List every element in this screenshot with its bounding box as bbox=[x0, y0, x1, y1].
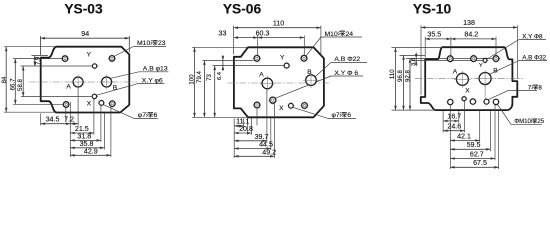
leader phi7 YS-03 bbox=[103, 105, 134, 119]
dimension 44.5 bbox=[234, 148, 271, 150]
bolt hole M10 top-2 YS-10 bbox=[471, 56, 477, 62]
dimension 84.2 bbox=[451, 38, 496, 40]
dimension 31.8 bbox=[70, 139, 101, 141]
svg-text:7: 7 bbox=[528, 84, 532, 91]
dimension 49.2 bbox=[234, 155, 274, 157]
svg-text:M10: M10 bbox=[325, 31, 338, 38]
svg-text:Y: Y bbox=[280, 55, 285, 62]
dimension 35.5 bbox=[425, 38, 451, 40]
svg-text:7.2: 7.2 bbox=[64, 115, 74, 123]
dimension 66.7 bbox=[14, 59, 16, 105]
centerline B down YS-10 bbox=[484, 85, 486, 99]
svg-text:X: X bbox=[279, 105, 284, 112]
svg-text:Y: Y bbox=[87, 52, 92, 59]
dimension 42.1 bbox=[450, 140, 479, 142]
svg-text:φ7: φ7 bbox=[332, 112, 340, 119]
drop bolt BL YS-06 bbox=[256, 108, 258, 125]
drop bolt BL YS-03 bbox=[65, 108, 67, 123]
bolt hole M10 bottom-1 YS-10 bbox=[448, 99, 453, 104]
drop bolt b4 YS-10 bbox=[494, 105, 496, 161]
svg-text:6: 6 bbox=[154, 112, 158, 119]
drop port X YS-06 bbox=[273, 104, 275, 158]
dimension 110 bbox=[234, 27, 321, 29]
drop port X YS-10 bbox=[464, 101, 466, 133]
dimension 92.8 bbox=[409, 58, 411, 110]
svg-text:33: 33 bbox=[219, 29, 227, 37]
svg-text:60.3: 60.3 bbox=[256, 29, 270, 37]
dimension 16.7 bbox=[443, 120, 459, 122]
leader XY YS-03 bbox=[96, 84, 138, 96]
dimension 96.8 bbox=[403, 55, 405, 110]
bolt hole M10 bottom-2 YS-10 bbox=[470, 99, 475, 104]
svg-text:A.B φ13: A.B φ13 bbox=[143, 66, 168, 73]
drop reference YS-03 bbox=[69, 102, 71, 157]
dimension 6.4 bbox=[222, 61, 224, 66]
dimension 39.7 bbox=[234, 140, 267, 142]
extension bottom edge YS-03 bbox=[4, 111, 56, 113]
port X YS-10 bbox=[462, 97, 466, 101]
drop left edge YS-06 bbox=[233, 118, 235, 158]
svg-text:A: A bbox=[453, 68, 458, 75]
extension bolt1 up YS-10 bbox=[450, 37, 452, 62]
svg-text:100: 100 bbox=[188, 74, 195, 85]
svg-text:42.9: 42.9 bbox=[84, 147, 98, 155]
extension bolt3 up YS-10 bbox=[495, 37, 497, 62]
svg-text:A.B Φ22: A.B Φ22 bbox=[334, 56, 360, 63]
bolt hole M10 top-left YS-03 bbox=[62, 56, 68, 62]
drop phi7 YS-03 bbox=[100, 106, 102, 143]
bolt hole M10 bottom-left YS-06 bbox=[254, 102, 260, 108]
extension right 138 bbox=[516, 25, 518, 79]
svg-text:62.7: 62.7 bbox=[470, 150, 484, 158]
dimension 59.5 bbox=[450, 148, 490, 150]
drop corner YS-06 bbox=[247, 118, 249, 135]
leader AB YS-06 bbox=[315, 62, 331, 77]
bolt hole M10 top-left YS-06 bbox=[254, 56, 260, 62]
drop 16.7 right YS-10 bbox=[458, 111, 460, 123]
svg-text:79.4: 79.4 bbox=[196, 70, 203, 82]
extension bolt row YS-10 bbox=[406, 57, 500, 59]
dimension 42.9 bbox=[70, 154, 111, 156]
hole phi7 YS-06 bbox=[289, 103, 294, 108]
svg-text:7.9: 7.9 bbox=[35, 57, 41, 65]
leader M10 YS-03 bbox=[113, 47, 134, 58]
drop 20.8 YS-06 bbox=[251, 118, 253, 135]
svg-text:92.8: 92.8 bbox=[404, 69, 411, 81]
dimension 3.8 bbox=[415, 58, 417, 60]
dimension 67.5 bbox=[450, 166, 498, 168]
leader M10 YS-10 bbox=[498, 105, 512, 125]
bolt hole M10 bottom-4 YS-10 bbox=[493, 99, 498, 104]
svg-text:35.5: 35.5 bbox=[427, 30, 441, 38]
svg-text:X: X bbox=[87, 100, 92, 107]
drop port X YS-03 bbox=[93, 99, 95, 135]
leader phi7 YS-06 bbox=[293, 107, 328, 118]
hole phi7 YS-03 bbox=[99, 101, 104, 106]
leader 7 depth 8 YS-10 bbox=[488, 91, 508, 100]
svg-text:YS-06: YS-06 bbox=[223, 2, 262, 17]
extension top edge YS-03 bbox=[4, 46, 56, 48]
port X YS-03 bbox=[92, 94, 96, 98]
drop plate corner YS-03 bbox=[40, 114, 42, 126]
extension 96.8 YS-10 bbox=[400, 54, 426, 56]
leader XY YS-06 bbox=[276, 76, 332, 98]
dimension 7.9 bbox=[34, 55, 36, 66]
svg-text:YS-03: YS-03 bbox=[64, 2, 103, 17]
port B YS-06 bbox=[306, 75, 317, 86]
drop 16.7 left YS-10 bbox=[442, 111, 444, 132]
svg-text:X: X bbox=[465, 88, 470, 95]
extension Y row YS-10 bbox=[412, 59, 488, 61]
plate outline YS-03 bbox=[41, 47, 130, 113]
svg-text:X.Y Φ8: X.Y Φ8 bbox=[522, 33, 543, 40]
svg-text:25: 25 bbox=[537, 119, 544, 125]
dimension 79.4 bbox=[203, 61, 205, 118]
svg-text:φ7: φ7 bbox=[138, 112, 146, 119]
dimension 73 bbox=[214, 66, 216, 118]
svg-text:A: A bbox=[66, 83, 71, 90]
leader AB YS-10 bbox=[490, 61, 520, 75]
port A YS-06 bbox=[262, 78, 273, 89]
drop port A YS-06 bbox=[266, 89, 268, 143]
horizontal centerline YS-03 bbox=[29, 81, 138, 83]
dimension 21.5 bbox=[70, 132, 94, 134]
dimension 34.5 bbox=[41, 123, 71, 125]
svg-text:16.7: 16.7 bbox=[447, 113, 461, 121]
extension bolt TL up YS-06 bbox=[257, 36, 259, 62]
svg-text:24.6: 24.6 bbox=[447, 123, 461, 131]
svg-text:58.8: 58.8 bbox=[17, 78, 24, 90]
svg-text:A: A bbox=[259, 72, 264, 79]
svg-text:96.8: 96.8 bbox=[397, 69, 404, 81]
svg-text:8: 8 bbox=[538, 84, 542, 91]
dimension 60.3 bbox=[258, 37, 305, 39]
svg-text:A.B Φ32: A.B Φ32 bbox=[522, 54, 546, 61]
bolt hole M10 bottom-left YS-03 bbox=[63, 102, 69, 108]
port B YS-03 bbox=[102, 77, 112, 87]
extension left 138 bbox=[420, 25, 422, 95]
extension Y row YS-06 bbox=[213, 65, 291, 67]
dimension 11.1 bbox=[234, 125, 243, 127]
port A YS-03 bbox=[73, 77, 83, 87]
horizontal centerline YS-10 bbox=[415, 78, 523, 80]
dimension 94 bbox=[41, 37, 130, 39]
port X YS-06 bbox=[270, 97, 276, 103]
svg-text:44.5: 44.5 bbox=[259, 141, 273, 149]
dimension 62.7 bbox=[450, 158, 495, 160]
extension bolt TR up YS-06 bbox=[303, 36, 305, 62]
svg-text:84.2: 84.2 bbox=[464, 30, 478, 38]
dimension 24.6 bbox=[443, 130, 464, 132]
dimension 84 bbox=[5, 47, 7, 113]
port Y YS-10 bbox=[483, 58, 487, 62]
bolt hole M10 top-1 YS-10 bbox=[447, 56, 453, 62]
extension 79.4 row YS-06 bbox=[203, 60, 254, 62]
drop 44.5 YS-06 bbox=[270, 118, 272, 150]
svg-text:M10: M10 bbox=[137, 40, 150, 47]
svg-text:59.5: 59.5 bbox=[467, 141, 481, 149]
extension bottom edge YS-10 bbox=[392, 109, 437, 111]
svg-text:73: 73 bbox=[206, 74, 213, 81]
dimension 35.8 bbox=[70, 147, 104, 149]
extension top edge YS-06 bbox=[192, 46, 248, 48]
bolt hole M10 bottom-right YS-03 bbox=[110, 101, 116, 107]
drop port A YS-03 bbox=[77, 88, 79, 126]
extension line right 94 bbox=[128, 36, 130, 52]
port B YS-10 bbox=[479, 73, 491, 85]
leader XY YS-10 bbox=[487, 40, 519, 60]
port Y YS-03 bbox=[92, 64, 96, 68]
extension bolt row top YS-03 bbox=[13, 58, 62, 60]
svg-text:ΦM10: ΦM10 bbox=[514, 119, 531, 125]
extension X row YS-03 bbox=[21, 96, 98, 98]
drop bolt b1 YS-10 bbox=[449, 105, 451, 169]
extension bolt row bottom YS-03 bbox=[13, 103, 63, 105]
plate outline YS-10 bbox=[421, 47, 518, 110]
svg-text:23: 23 bbox=[158, 40, 166, 47]
svg-text:24: 24 bbox=[346, 31, 354, 38]
dimension 20.8 bbox=[234, 132, 251, 134]
svg-text:X.Y φ6: X.Y φ6 bbox=[142, 77, 163, 84]
svg-text:42.1: 42.1 bbox=[457, 132, 471, 140]
leader AB YS-03 bbox=[110, 72, 139, 79]
drop 42.1 YS-10 bbox=[479, 111, 481, 142]
drop bolt BR YS-03 bbox=[110, 107, 112, 157]
bolt hole M10 top-right YS-03 bbox=[109, 56, 115, 62]
svg-text:34.5: 34.5 bbox=[46, 115, 60, 123]
dimension 58.8 bbox=[22, 66, 24, 97]
svg-text:6.4: 6.4 bbox=[217, 71, 223, 80]
svg-text:Y: Y bbox=[479, 63, 483, 69]
drop aux YS-03 bbox=[103, 113, 105, 150]
drop 11.1 YS-06 bbox=[243, 118, 245, 127]
svg-text:49.2: 49.2 bbox=[262, 148, 276, 156]
dimension 33 bbox=[234, 37, 258, 39]
dimension 7.2 bbox=[70, 123, 78, 125]
extension top edge YS-10 bbox=[392, 47, 444, 49]
extension bottom edge YS-06 bbox=[192, 116, 248, 118]
port Y YS-06 bbox=[284, 63, 289, 68]
extension 7.9 top bbox=[32, 54, 49, 56]
leader M10 YS-06 bbox=[306, 37, 321, 56]
svg-text:20.8: 20.8 bbox=[239, 125, 253, 133]
svg-text:110: 110 bbox=[273, 19, 284, 27]
bolt hole M10 bottom-3 YS-10 bbox=[484, 99, 489, 104]
svg-text:84: 84 bbox=[1, 76, 8, 83]
extension Y row YS-03 bbox=[21, 65, 99, 67]
extension left 110 bbox=[233, 26, 235, 55]
svg-text:YS-10: YS-10 bbox=[413, 2, 452, 17]
dimension 138 bbox=[421, 26, 517, 28]
drop 67.5 YS-10 bbox=[498, 111, 500, 169]
svg-text:3.8: 3.8 bbox=[411, 58, 417, 66]
bolt hole M10 top-3 YS-10 bbox=[493, 56, 499, 62]
svg-text:94: 94 bbox=[81, 30, 89, 38]
extension line left 94 bbox=[40, 36, 42, 55]
svg-text:138: 138 bbox=[463, 19, 475, 27]
dimension 110 YS-10 bbox=[395, 48, 397, 111]
svg-text:110: 110 bbox=[389, 69, 396, 79]
plate outline YS-06 bbox=[234, 47, 324, 117]
drop 59.5 YS-10 bbox=[490, 111, 492, 151]
svg-text:66.7: 66.7 bbox=[10, 78, 17, 90]
dimension 100 bbox=[194, 47, 196, 117]
svg-text:X.Y Φ 6: X.Y Φ 6 bbox=[334, 70, 358, 77]
extension right 110 bbox=[320, 26, 322, 57]
svg-text:6: 6 bbox=[347, 112, 351, 119]
svg-text:67.5: 67.5 bbox=[473, 159, 487, 167]
horizontal centerline YS-06 bbox=[228, 82, 331, 84]
bolt hole M10 bottom-right YS-06 bbox=[302, 103, 308, 109]
extension left 35.5 bbox=[424, 37, 426, 58]
bolt hole M10 top-right YS-06 bbox=[301, 55, 307, 61]
port A YS-10 bbox=[456, 73, 468, 85]
